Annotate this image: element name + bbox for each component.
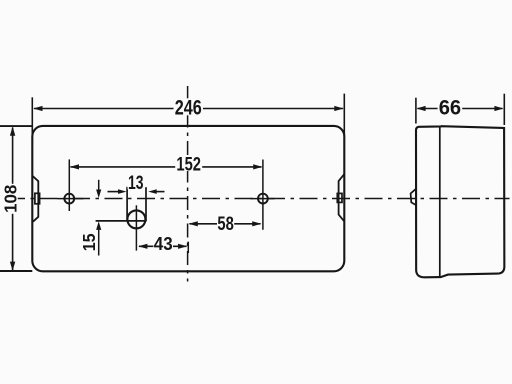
dimension line 13 right [155, 191, 165, 193]
cable hole vertical axis [135, 205, 137, 250]
arrow 152 left [70, 164, 79, 169]
arrow 108 up [10, 126, 15, 135]
arrow 108 down [10, 262, 15, 271]
cable slot right edge [145, 187, 147, 221]
arrow 15 up [96, 221, 101, 230]
extension line 43 right [187, 242, 189, 253]
svg-text:152: 152 [176, 153, 201, 175]
text backgrounds [3, 98, 462, 252]
extension line 66 right [503, 94, 505, 125]
side view outline [416, 126, 504, 277]
extension line 246 right [343, 94, 345, 137]
right tab slot [337, 193, 342, 202]
dimension line 152 [71, 166, 262, 168]
dimension line 15 lower [98, 228, 100, 255]
arrow 15 down [96, 190, 101, 199]
vertical centerline of lamp [187, 86, 189, 282]
cable slot left edge [126, 187, 128, 222]
horizontal centerline (dash-dot, full width through both views) [7, 198, 510, 200]
dimension line 58 [190, 223, 261, 225]
arrow 13 left (points right) [118, 189, 127, 194]
arrow 152 right [253, 164, 262, 169]
extension line 108 bottom [0, 270, 32, 272]
lamp housing outline (front view) [32, 126, 344, 271]
svg-text:15: 15 [79, 233, 99, 251]
arrow 58 right [252, 221, 261, 226]
right hole vertical axis [262, 160, 264, 230]
extension line 108 top [0, 125, 32, 127]
side view lens joint line [439, 127, 441, 277]
arrow 246 left [33, 106, 42, 111]
svg-text:66: 66 [439, 97, 461, 120]
right mounting tab [339, 174, 345, 221]
dimension line 15 upper [98, 180, 100, 192]
svg-text:108: 108 [1, 184, 21, 212]
dimension line 13 left [108, 191, 120, 193]
dimension line 246 [34, 108, 343, 110]
arrow 13 right (points left) [148, 189, 157, 194]
arrow 66 left [416, 106, 425, 111]
cable slot bottom edge [96, 220, 146, 222]
side view mounting tab [411, 189, 417, 205]
svg-text:58: 58 [217, 213, 234, 235]
arrow 66 right [494, 106, 503, 111]
left hole horizontal axis [57, 198, 83, 200]
right hole horizontal axis [251, 198, 275, 200]
arrow 58 left [189, 221, 198, 226]
right mounting hole [258, 194, 268, 204]
arrow 246 right [334, 106, 343, 111]
dimension line 108 [12, 128, 14, 271]
left mounting tab [32, 176, 38, 222]
svg-text:246: 246 [175, 96, 202, 119]
left mounting hole [64, 194, 74, 204]
svg-text:43: 43 [154, 234, 173, 254]
dimension line 66 [418, 108, 503, 110]
arrow 43 right [178, 244, 187, 249]
extension line 246 left [31, 97, 33, 137]
svg-text:13: 13 [128, 172, 144, 194]
arrow 43 left [138, 244, 147, 249]
left tab slot [35, 193, 40, 204]
extension line 66 left [415, 98, 417, 124]
left hole vertical axis [68, 159, 70, 211]
arrowheads [10, 106, 504, 271]
dimension line 43 [139, 245, 187, 247]
cable entry hole [127, 210, 145, 228]
